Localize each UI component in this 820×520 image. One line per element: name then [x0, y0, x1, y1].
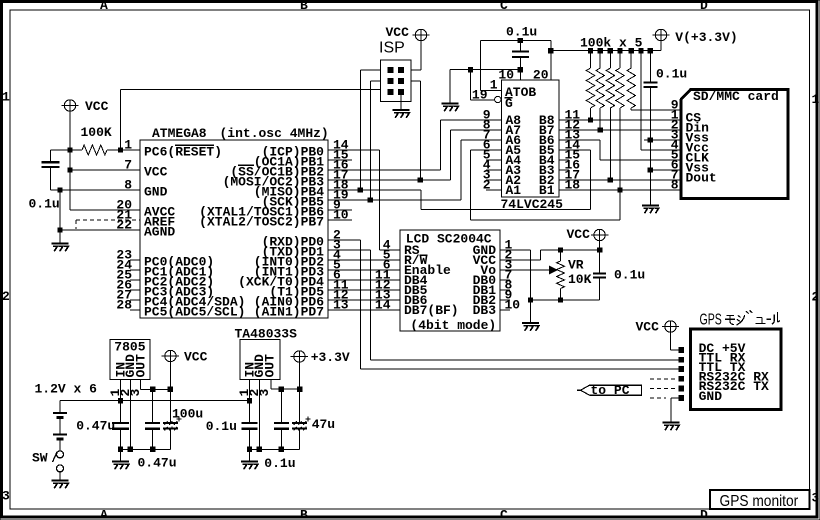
wire VCC down to AVCC	[69, 170, 71, 210]
svg-text:A1: A1	[506, 183, 522, 198]
svg-text:+3.3V: +3.3V	[311, 350, 350, 365]
junction cap bottom / pin10 net	[518, 67, 523, 72]
svg-text:28: 28	[116, 297, 132, 312]
power symbol +3.3V	[294, 351, 305, 362]
U4 pin2 stub to gnd rail	[258, 380, 260, 450]
pullup CS drop	[590, 108, 592, 120]
wire gnd stub TA	[249, 449, 251, 461]
LCD right stubs	[500, 279, 510, 281]
wire node VCC to resistor	[70, 149, 82, 151]
svg-text:VCC: VCC	[636, 320, 660, 335]
wire B7 to Din	[559, 129, 681, 131]
pullup SD8 drop	[619, 108, 621, 190]
capacitor C4 0.47u	[112, 422, 129, 424]
wire PD2-PD7 rows to LCD	[328, 259, 400, 261]
wire VCC stub to node	[69, 111, 71, 150]
U3 pin3 stub	[140, 380, 142, 390]
svg-text:C: C	[500, 508, 508, 520]
power symbol VCC (top left)	[64, 100, 75, 111]
wire LCD VCC jog	[500, 259, 541, 261]
U3 pin1 stub + C4 top lead	[120, 380, 122, 424]
wire B8 to CS	[559, 119, 681, 121]
svg-text:to PC: to PC	[591, 383, 630, 398]
wire pin1 stub	[121, 149, 141, 151]
pullup SD9 drop to pin9	[630, 108, 632, 110]
capacitor C3 0.1u (SD)	[643, 81, 657, 83]
svg-text:OUT: OUT	[133, 354, 148, 378]
wire Vcc feed	[638, 48, 643, 53]
svg-text:7805: 7805	[114, 340, 145, 355]
wire gnd rail (TA48033S)	[250, 448, 300, 450]
wire pin1 tie to VCC rail	[479, 41, 481, 91]
wire ISP gnd stub	[400, 95, 402, 110]
svg-text:B: B	[300, 508, 308, 520]
svg-text:B: B	[300, 0, 308, 13]
junction LCD gnd rail	[528, 297, 533, 302]
junction G gnd	[468, 67, 473, 72]
svg-text:GND: GND	[144, 184, 168, 199]
svg-text:SW: SW	[32, 451, 48, 466]
svg-text:PC6(RESET): PC6(RESET)	[144, 144, 222, 159]
wire PB0 riser to LCD RS	[379, 150, 381, 250]
ground symbol (SD)	[642, 204, 659, 206]
wire GND down to AGND	[59, 190, 61, 230]
ground symbol (ISP)	[393, 109, 410, 111]
U2 B4 B3 stubs	[559, 159, 569, 161]
junction Vss row3	[648, 137, 653, 142]
pullup resistor 100k at x=600.2	[598, 48, 603, 53]
svg-text:A: A	[100, 508, 108, 520]
svg-text:OUT: OUT	[262, 354, 277, 378]
dashed RS232C TX	[650, 387, 678, 389]
svg-text:3: 3	[812, 491, 820, 506]
junction 7805 IN	[118, 398, 123, 403]
power symbol VCC (LCD)	[594, 229, 605, 240]
U2 pin 10 stub	[519, 70, 521, 80]
svg-text:VCC: VCC	[386, 25, 410, 40]
wire RXD PD0 to GPS TTL TX	[328, 239, 360, 241]
svg-text:VCC: VCC	[85, 99, 109, 114]
svg-text:SD/MMC card: SD/MMC card	[693, 89, 779, 104]
ground symbol (analog gnd)	[52, 242, 69, 244]
junction C9 top	[279, 386, 284, 391]
junction ISP MISO	[358, 187, 363, 192]
junction +3.3V/47u	[297, 386, 302, 391]
ground symbol (7805)	[112, 460, 129, 462]
wire Vss row3	[644, 139, 681, 141]
svg-text:0.47u: 0.47u	[138, 456, 177, 471]
IC U1 ATMEGA8 body	[140, 140, 328, 318]
ground symbol (battery)	[52, 479, 69, 481]
GPS pin TTL RX	[678, 357, 684, 363]
wire TXD PD1 to GPS TTL RX	[328, 249, 370, 251]
capacitor C6 100u electrolytic	[163, 422, 178, 424]
svg-text:AGND: AGND	[144, 224, 175, 239]
svg-text:B1: B1	[539, 183, 555, 198]
svg-text:1.2V x 6: 1.2V x 6	[35, 382, 98, 397]
wire RESET rail to ISP	[121, 89, 381, 91]
wire battery top	[59, 401, 61, 413]
ground symbol (74LVC245)	[442, 102, 459, 104]
wire 3.3V rail	[551, 50, 661, 52]
dashed RS232C RX	[650, 378, 678, 380]
svg-text:A: A	[100, 0, 108, 13]
capacitor C7 0.1u (LCD)	[593, 272, 606, 274]
module LCD SC2004C body	[400, 230, 500, 331]
LCD R/W overline	[420, 254, 428, 256]
svg-text:8: 8	[671, 177, 679, 192]
title block box	[710, 490, 810, 509]
wire gnd rail (7805)	[121, 448, 171, 450]
junction AGND	[57, 227, 62, 232]
svg-text:TA48033S: TA48033S	[235, 327, 298, 342]
junction VR bottom	[558, 297, 563, 302]
wire B2 to Dout	[559, 179, 681, 181]
wire 7805 OUT net	[141, 388, 171, 390]
katakana ru	[772, 312, 780, 325]
katakana mo	[725, 316, 735, 325]
svg-text:DB7(BF): DB7(BF)	[404, 303, 459, 318]
wire ISP MOSI riser	[419, 81, 421, 180]
svg-text:100u: 100u	[172, 407, 203, 422]
wire PB4 loop to B5	[420, 190, 422, 210]
U1 RESET overline	[175, 144, 214, 146]
connector J1 ISP body	[381, 60, 412, 102]
svg-text:0.1u: 0.1u	[29, 197, 60, 212]
svg-text:0.1u: 0.1u	[206, 419, 237, 434]
svg-text:D: D	[700, 0, 708, 13]
wire resistor to pin1 node	[107, 149, 121, 151]
svg-text:(int.osc 4MHz): (int.osc 4MHz)	[220, 126, 329, 141]
svg-text:(4bit mode): (4bit mode)	[410, 318, 496, 333]
wire VCC to pin 7	[70, 169, 140, 171]
katakana long dash	[766, 318, 771, 320]
pullup Din drop	[599, 108, 601, 130]
wire PB5 row to A6	[328, 199, 461, 201]
svg-text:0.1u: 0.1u	[614, 268, 645, 283]
svg-text:14: 14	[375, 297, 391, 312]
U1 pins 23-28 stubs	[130, 259, 140, 261]
GPS pin GND	[678, 395, 684, 401]
wire rail 0.1u	[480, 40, 551, 42]
power symbol V(+3.3V)	[655, 29, 666, 40]
potentiometer VR 10K	[560, 250, 562, 261]
junction gnd rail dots	[118, 447, 123, 452]
svg-text:3: 3	[2, 489, 10, 504]
wire PB6 stub	[328, 209, 352, 211]
pullup resistor 100k at x=620	[617, 48, 622, 53]
svg-text:VR: VR	[568, 258, 584, 273]
svg-text:PC5(ADC5/SCL): PC5(ADC5/SCL)	[144, 304, 245, 319]
wire battery to switch	[59, 439, 61, 451]
wire gnd stub	[120, 449, 122, 461]
U1 SS overline	[238, 164, 254, 166]
junction VCC cap	[597, 247, 602, 252]
svg-text:47u: 47u	[312, 417, 335, 432]
wire PB7 stub	[328, 219, 352, 221]
wire AVCC pin 20	[70, 209, 140, 211]
junction VCC pin7	[67, 167, 72, 172]
GPS pin DC +5V	[678, 347, 684, 353]
capacitor C2 0.1u (74LVC245)	[512, 50, 529, 52]
ground symbol (GPS)	[662, 421, 679, 423]
wire B1 to SD pin8	[559, 189, 681, 191]
GPS pin TTL TX	[678, 366, 684, 372]
dashed GND	[650, 397, 666, 399]
connector J2 SD/MMC card body	[681, 90, 788, 199]
regulator U4 TA48033S body	[240, 340, 280, 380]
junction ISP SCK	[368, 197, 373, 202]
wire LCD gnd rail	[531, 299, 600, 301]
svg-text:GPS: GPS	[700, 310, 722, 328]
svg-text:VCC: VCC	[184, 350, 208, 365]
resistor R1 100K	[82, 145, 107, 155]
wire AREF dashed	[76, 219, 140, 221]
wire ISP MISO riser	[359, 70, 361, 190]
wire A5 to SD pin8 loop	[470, 149, 502, 151]
svg-text:VCC: VCC	[144, 164, 168, 179]
regulator U3 7805 body	[110, 340, 150, 380]
svg-text:VCC: VCC	[567, 227, 591, 242]
wire GND to pin 8	[60, 189, 140, 191]
junction VCC node	[67, 147, 72, 152]
power symbol VCC (ISP)	[415, 29, 426, 40]
wire Vss row6	[650, 169, 680, 171]
svg-text:10K: 10K	[568, 272, 592, 287]
pullup Dout drop	[609, 108, 611, 180]
capacitor C9 0.1u	[274, 422, 289, 424]
junction node RESET	[118, 147, 123, 152]
katakana yu	[755, 318, 765, 324]
wire PB0 row	[328, 149, 380, 151]
junction TA48033S IN	[247, 398, 252, 403]
svg-text:ISP: ISP	[379, 40, 405, 57]
wire GPS VCC to DC pin	[670, 332, 672, 350]
capacitor C5 0.47u	[145, 422, 160, 424]
svg-text:100K: 100K	[81, 125, 112, 140]
wire PB3 row to A7	[328, 179, 451, 181]
svg-text:20: 20	[533, 67, 549, 82]
svg-text:74LVC245: 74LVC245	[501, 197, 564, 212]
junction GND pin8	[57, 187, 62, 192]
svg-text:0.1u: 0.1u	[264, 456, 295, 471]
wire AGND to ground	[59, 230, 61, 244]
wire Vo wiper arrow	[500, 269, 551, 271]
junction pin20 VCC rail	[548, 48, 553, 53]
wire RESET riser to ISP	[120, 90, 122, 151]
wire ISP SCK riser	[369, 81, 371, 200]
J1 pin pads	[388, 67, 394, 73]
wire PB2 row to A8	[328, 169, 440, 171]
katakana ji	[737, 310, 753, 325]
U3 pin2 stub to gnd rail	[129, 380, 131, 450]
wire PB4 row	[328, 189, 421, 191]
svg-text:GPS monitor: GPS monitor	[720, 492, 799, 510]
svg-text:2: 2	[812, 290, 820, 305]
wire switch to ground	[59, 472, 61, 481]
wire TA48033S OUT net	[271, 388, 300, 390]
wire VCC rail (LCD)	[541, 249, 600, 251]
power symbol VCC (7805 out)	[165, 350, 176, 361]
svg-text:0.47u: 0.47u	[76, 419, 115, 434]
junction cap top	[518, 38, 523, 43]
U4 pin1 stub + C8 top lead	[249, 380, 251, 424]
junction ISP MOSI	[418, 177, 423, 182]
svg-text:V(+3.3V): V(+3.3V)	[675, 30, 737, 45]
wire cap bottom to GND	[50, 167, 52, 190]
junction VCC/100u	[168, 387, 173, 392]
junction VR top	[558, 247, 563, 252]
ground symbol (LCD)	[522, 322, 539, 324]
svg-text:1: 1	[2, 90, 10, 105]
svg-text:0.1u: 0.1u	[656, 67, 687, 82]
svg-text:Dout: Dout	[686, 171, 717, 186]
IC U2 74LVC245 body	[502, 80, 560, 197]
svg-text:ATMEGA8: ATMEGA8	[152, 126, 207, 141]
GPS pin RS232C TX	[678, 386, 684, 392]
pullup resistor 100k at x=590.5	[588, 48, 593, 53]
wire AGND pin 22	[60, 229, 140, 231]
svg-text:(XTAL2/TOSC2)PB7: (XTAL2/TOSC2)PB7	[199, 214, 324, 229]
svg-text:1: 1	[812, 92, 820, 107]
wire ISP VCC	[420, 41, 422, 70]
GPS pin RS232C RX	[678, 376, 684, 382]
svg-text:10: 10	[498, 67, 514, 82]
svg-text:D: D	[700, 508, 708, 520]
capacitor C1 0.1u	[42, 161, 60, 163]
pullup resistor 100k at x=631.2	[629, 48, 634, 53]
pullup resistor 100k at x=610.4	[608, 48, 613, 53]
wire gnd drop	[450, 69, 471, 71]
wire cap top to VCC node	[51, 149, 71, 151]
wire pin10 gnd net	[471, 69, 521, 71]
capacitor C8 0.1u	[242, 422, 258, 424]
wire battery rail	[60, 400, 250, 402]
wire GPS GND	[671, 397, 679, 399]
wire PB1 stub	[328, 159, 352, 161]
wire pin19 G to gnd net	[470, 70, 472, 101]
svg-text:C: C	[500, 0, 508, 13]
capacitor C10 47u electrolytic	[292, 422, 307, 424]
svg-text:GND: GND	[699, 389, 723, 404]
svg-text:(AIN1)PD7: (AIN1)PD7	[254, 304, 324, 319]
wire VCC node down	[69, 150, 71, 170]
wire LCD GND	[500, 249, 531, 251]
svg-text:0.1u: 0.1u	[506, 25, 537, 40]
node label to PC	[581, 385, 642, 395]
wire B6 jog to CLK	[559, 139, 600, 141]
junction C5 top	[150, 387, 155, 392]
junction Vss row6	[648, 167, 653, 172]
power symbol VCC (GPS)	[665, 321, 676, 332]
svg-text:DB3: DB3	[473, 303, 497, 318]
ground symbol (TA48033S)	[241, 460, 258, 462]
U4 pin3 stub	[270, 380, 272, 390]
wire SD gnd column	[649, 87, 651, 206]
module GPS body	[691, 329, 782, 410]
svg-text:2: 2	[2, 289, 10, 304]
wire 3.3V stub	[660, 41, 662, 51]
